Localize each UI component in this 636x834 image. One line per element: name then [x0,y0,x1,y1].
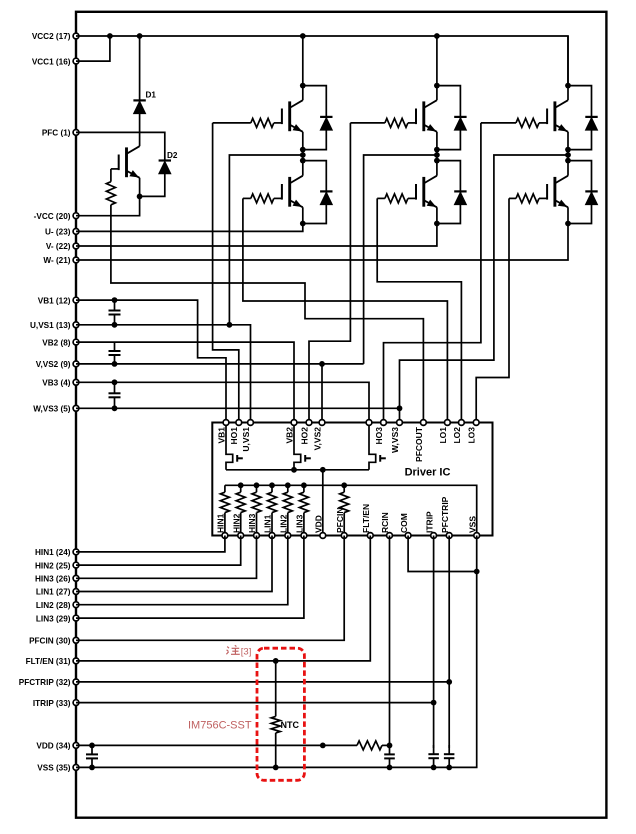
wire VDD line [76,744,357,746]
resistor pulldown HIN2 [236,485,245,535]
resistor pulldown HIN3 [252,485,261,535]
resistor R3H (high gate) [516,118,539,127]
wire gate lead down [110,169,112,182]
node pulldown LIN3 tap [301,482,307,488]
IC bottom pin HIN1 [216,513,228,538]
svg-text:VCC1 (16): VCC1 (16) [32,57,71,66]
pin PFC (1) [42,129,79,138]
svg-text:VDD: VDD [314,515,324,533]
pin PFCTRIP (32) [19,678,79,687]
node HB2 VCC2 junction [434,33,440,39]
node ITRIP junction [431,700,437,706]
wire VB1 route [76,300,226,422]
node VDD IC tap [320,743,326,749]
bootstrap switch at VB2 [294,423,311,470]
wire ITRIP line [76,702,434,704]
wire V,VS2 route [76,363,364,365]
node HB1 out-b [300,152,306,158]
IC top pin VB2 [284,420,297,444]
svg-text:VB3 (4): VB3 (4) [42,379,70,388]
svg-text:HIN3: HIN3 [247,513,257,533]
wire HB2 high diode branch [437,86,461,150]
IC bottom pin ITRIP [424,511,436,538]
resistor R1H (high gate) [251,118,274,127]
node Q7 emitter junction [137,194,143,200]
svg-text:VB2 (8): VB2 (8) [42,338,70,347]
pin VB1 (12) [38,296,79,305]
IC top pin LO2 [452,420,465,444]
svg-text:HIN2: HIN2 [231,513,241,533]
svg-text:V- (22): V- (22) [46,242,71,251]
svg-text:W- (21): W- (21) [43,256,70,265]
svg-text:HO1: HO1 [229,427,239,445]
label IM756C-SST [188,720,252,732]
svg-text:VSS: VSS [467,516,477,533]
node C2 bottom [112,361,118,367]
svg-text:LO3: LO3 [467,427,477,444]
transistor Q3L (low IGBT) [547,176,568,208]
svg-text:RCIN: RCIN [380,512,390,533]
svg-text:PFCIN: PFCIN [335,508,345,534]
wire W sense [400,155,569,423]
svg-text:FLT/EN (31): FLT/EN (31) [26,657,71,666]
capacitor C1 (VB1 bootstrap) [109,300,121,325]
wire HB3 low diode branch [568,161,592,224]
wire VSS line [76,536,477,768]
node pulldown HIN2 tap [238,482,244,488]
svg-text:PFCTRIP: PFCTRIP [440,496,450,533]
IC top pin WVS3 [390,420,403,453]
IC top pin VB1 [216,420,229,444]
diode D3L (low freewheel) [585,191,597,204]
svg-text:VB1 (12): VB1 (12) [38,296,71,305]
svg-text:LIN3 (29): LIN3 (29) [36,614,71,623]
pin U- (23) [45,228,79,237]
pin LIN1 (27) [36,588,79,597]
IC top pin VVS2 [312,420,325,451]
wire R3H to gate [539,122,547,124]
svg-text:D2: D2 [167,151,178,160]
IC bottom pin HIN3 [247,513,259,538]
pin HIN1 (24) [35,548,79,557]
IC top pin UVS1 [241,420,254,452]
IC top pin LO3 [467,420,480,444]
capacitor C7 (PFCTRIP) [444,745,455,767]
diode D1 [133,91,156,114]
wire half-bridge 2 collector feed [436,36,438,100]
node HB1 out-c [300,158,306,164]
wire HIN2 input line [76,536,241,566]
wire V sense [364,155,437,364]
node HB2 out-b [434,152,440,158]
node W sense junction [397,405,403,411]
node PFCTRIP junction [446,679,452,685]
transistor Q2H (high IGBT) [416,100,437,132]
svg-text:VCC2 (17): VCC2 (17) [32,32,71,41]
node HB1 collector junction [300,83,306,89]
wire HB1 low gate lead [243,197,251,199]
transistor Q2L (low IGBT) [416,176,437,208]
pin PFCIN (30) [29,637,79,646]
node HB2 out-a [434,147,440,153]
svg-text:LIN1 (27): LIN1 (27) [36,588,71,597]
node pulldown LIN2 tap [285,482,291,488]
svg-text:[3]: [3] [241,646,252,657]
transistor Q1L (low IGBT) [282,176,303,208]
wire HB3 high gate lead [481,122,516,124]
IC bottom pin PFCIN [335,508,347,539]
wire R2H to gate [408,122,416,124]
wire half-bridge 3 collector feed [567,36,569,100]
wire HB2 high gate lead [350,122,385,124]
IC top pin PFCOUT [414,420,427,462]
node VDD cap tap [89,743,95,749]
node pulldown LIN1 tap [269,482,275,488]
svg-text:U,VS1 (13): U,VS1 (13) [30,321,71,330]
resistor R8 (RCIN) [357,741,382,750]
IC top pin LO1 [438,420,451,444]
svg-text:D1: D1 [146,91,157,100]
node U sense junction [227,322,233,328]
resistor R2L (low gate) [385,194,408,203]
IC bottom pin LIN2 [279,514,291,538]
pin LIN3 (29) [36,614,79,623]
resistor R2H (high gate) [385,118,408,127]
wire ITRIP cap lead [433,703,435,748]
svg-text:VDD (34): VDD (34) [36,742,70,751]
wire VB3 route [76,382,369,422]
node HB1 out-a [300,147,306,153]
IC bottom pin HIN2 [231,513,243,538]
pin W,VS3 (5) [33,405,79,414]
wire PFCTRIP line [76,681,449,683]
svg-text:IM756C-SST: IM756C-SST [188,720,252,732]
svg-text:COM: COM [399,513,409,533]
svg-text:U,VS1: U,VS1 [241,427,251,452]
wire LO3 route [476,198,509,422]
node RC junction [387,743,393,749]
node HB2 collector junction [434,83,440,89]
svg-text:PFCIN (30): PFCIN (30) [29,637,71,646]
node C5 bottom [387,765,393,771]
wire FLT/EN line [76,536,370,661]
bootstrap switch at VB3 [369,423,386,470]
node pulldown HIN3 tap [254,482,260,488]
node HB2 emitter junction [434,221,440,227]
pin LIN2 (28) [36,601,79,610]
node C7 bottom [446,765,452,771]
thermistor NTC [271,661,299,768]
pin FLT/EN (31) [26,657,79,666]
wire R2L to gate [408,197,416,199]
node HB2 out-c [434,158,440,164]
label note 注[3] [226,645,251,657]
node pulldown PFCIN tap [341,482,347,488]
node VCC1-VCC2 junction [107,33,113,39]
wire R1H to gate [274,122,282,124]
wire LIN1 input line [76,536,272,592]
wire HB2 low diode branch [437,161,461,224]
wire bootstrap rail [226,469,369,471]
wire V- line [76,207,437,246]
svg-text:VB2: VB2 [284,427,294,444]
svg-text:HO2: HO2 [299,427,309,445]
wire W,VS3 line [76,407,400,409]
node C1 top [112,297,118,303]
svg-text:LIN2: LIN2 [279,514,289,533]
wire HB1 high gate lead [213,122,251,124]
wire U sense [229,155,302,325]
pin ITRIP (33) [33,699,79,708]
wire HB1 high diode branch [303,86,327,150]
IC top pin VB3 [366,420,372,426]
svg-text:PFCOUT: PFCOUT [414,426,424,462]
svg-text:PFCTRIP (32): PFCTRIP (32) [19,678,71,687]
svg-text:U- (23): U- (23) [45,228,71,237]
wire RCIN drop [389,536,391,746]
wire V,VS2 drop [321,364,323,423]
node HB3 collector junction [565,83,571,89]
node D1-VCC2 junction [137,33,143,39]
diode D3H (high freewheel) [585,117,597,130]
resistor pulldown PFCIN [340,485,349,535]
wire HO1 route [213,123,239,423]
wire PFC to D2 [76,132,165,160]
pin U,VS1 (13) [30,321,79,330]
resistor pulldown LIN2 [283,485,292,535]
svg-text:LIN2 (28): LIN2 (28) [36,601,71,610]
capacitor C2 (VB2 bootstrap) [109,342,121,364]
wire PFCTRIP cap lead [448,682,450,748]
resistor pulldown LIN1 [268,485,277,535]
wire R1L to gate [274,197,282,199]
svg-text:HIN3 (26): HIN3 (26) [35,575,71,584]
svg-text:HO3: HO3 [374,427,384,445]
svg-text:LIN3: LIN3 [295,514,305,533]
resistor pulldown HIN1 [220,485,229,535]
transistor Q3H (high IGBT) [547,100,568,132]
wire half-bridge 1 collector feed [302,36,304,100]
wire Q7 gate lead [111,168,119,170]
wire HB1 output node [302,132,304,176]
svg-text:LO2: LO2 [452,427,462,444]
pin VB3 (4) [42,379,79,388]
svg-text:V,VS2: V,VS2 [312,427,322,451]
resistor pulldown LIN3 [299,485,308,535]
wire PFCOUT route [111,205,424,423]
pin V,VS2 (9) [36,360,79,369]
node C3 top [112,379,118,385]
node C6 bottom [431,765,437,771]
svg-text:VSS (35): VSS (35) [37,764,70,773]
wire HB2 output node [436,132,438,176]
pin V- (22) [46,242,79,251]
wire VCC2 rail [76,36,568,86]
capacitor C6 (ITRIP) [428,745,439,767]
node HB3 out-b [565,152,571,158]
pin VCC2 (17) [32,32,79,41]
svg-text:Driver IC: Driver IC [405,467,451,479]
node C3 bottom [112,405,118,411]
wire D1 branch [139,36,141,146]
annotation box IM756C-SST (dashed) [257,648,304,780]
pin -VCC (20) [34,212,79,221]
wire LIN2 input line [76,536,288,605]
pin VCC1 (16) [32,57,79,66]
wire R3L to gate [539,197,547,199]
svg-text:V,VS2 (9): V,VS2 (9) [36,360,71,369]
diode D2 [159,151,178,174]
wire HO2 route [309,123,350,423]
IC bottom pin LIN3 [295,514,307,538]
diode D1H (high freewheel) [320,117,332,130]
node V,VS2 junction [319,361,325,367]
resistor R7 (PFC gate) [106,182,115,205]
svg-text:PFC (1): PFC (1) [42,129,71,138]
wire LO2 route [377,198,461,422]
wire VDD internal drop [322,470,324,536]
node bootstrap VDD tap [320,467,326,473]
diode D2L (low freewheel) [454,191,466,204]
pin HIN3 (26) [35,575,79,584]
IC top pin HO1 [229,420,242,445]
node HB3 out-a [565,147,571,153]
wire R8 to RC node [382,744,390,746]
wire HB1 low diode branch [303,161,327,224]
svg-text:HIN1: HIN1 [216,513,226,533]
svg-text:HIN1 (24): HIN1 (24) [35,548,71,557]
node C1 bottom [112,322,118,328]
wire Q7 emitter to -VCC [76,178,140,216]
wire LIN3 input line [76,536,304,619]
transistor Q7 (PFC IGBT) [119,146,140,178]
wire U,VS1 route [76,325,251,423]
transistor Q1H (high IGBT) [282,100,303,132]
IC top pin HO3 [374,420,387,445]
IC bottom pin COM [399,513,411,538]
wire HO3 route [384,123,481,423]
diode D1L (low freewheel) [320,191,332,204]
wire HB3 low gate lead [509,197,516,199]
wire LO1 route [243,198,448,422]
node HB1 VCC2 junction [300,33,306,39]
wire VCC1 to VCC2 [76,36,110,61]
wire HB3 output node [567,132,569,176]
node HB3 out-c [565,158,571,164]
wire HB2 low gate lead [377,197,385,199]
svg-text:NTC: NTC [281,720,300,730]
svg-text:W,VS3 (5): W,VS3 (5) [33,405,71,414]
node FLT/EN NTC junction [273,658,279,664]
label Driver IC [405,467,451,479]
node HB3 emitter junction [565,221,571,227]
svg-text:W,VS3: W,VS3 [390,427,400,453]
IC bottom pin VSS [467,516,479,539]
node COM-VSS junction [474,569,480,575]
node HB1 emitter junction [300,221,306,227]
wire pulldown rail [225,485,477,535]
wire HB3 high diode branch [568,86,592,150]
diode D2H (high freewheel) [454,117,466,130]
node NTC bottom [273,765,279,771]
pin HIN2 (25) [35,561,79,570]
svg-text:VB1: VB1 [216,427,226,444]
wire D2 anode to emitter [140,173,165,197]
capacitor C5 (RCIN) [384,745,395,767]
IC bottom pin PFCTRIP [440,496,452,538]
node bootstrap VB2 tap [291,467,297,473]
IC bottom pin RCIN [380,512,392,538]
bootstrap switch at VB1 [226,423,243,470]
wire COM tie [408,536,477,572]
resistor R1L (low gate) [251,194,274,203]
wire W- line [76,207,568,260]
wire VB2 route [76,342,294,422]
svg-text:-VCC (20): -VCC (20) [34,212,71,221]
svg-text:LIN1: LIN1 [263,514,273,533]
svg-text:HIN2 (25): HIN2 (25) [35,561,71,570]
pin W- (21) [43,256,79,265]
IC bottom pin LIN1 [263,514,275,538]
capacitor C3 (VB3 bootstrap) [109,382,121,408]
svg-text:LO1: LO1 [438,427,448,444]
svg-text:ITRIP: ITRIP [424,511,434,533]
pin VSS (35) [37,764,79,773]
svg-text:ITRIP (33): ITRIP (33) [33,699,71,708]
IC top pin HO2 [299,420,312,445]
wire PFCTRIP drop [448,536,450,682]
op-amp U1 (Driver IC box) [212,423,492,536]
wire ITRIP drop [433,536,435,703]
wire PFCIN input line [76,536,344,641]
svg-text:FLT/EN: FLT/EN [361,504,371,533]
pin VDD (34) [36,742,79,751]
wire U- line [76,207,303,231]
wire HIN1 input line [76,536,225,552]
wire HIN3 input line [76,536,257,579]
IC bottom pin VDD [314,515,326,538]
pin VB2 (8) [42,338,79,347]
resistor R3L (low gate) [516,194,539,203]
IC bottom pin FLT/EN [361,504,373,539]
capacitor C4 (VDD-VSS) [86,745,98,767]
node C4 bottom [89,765,95,771]
